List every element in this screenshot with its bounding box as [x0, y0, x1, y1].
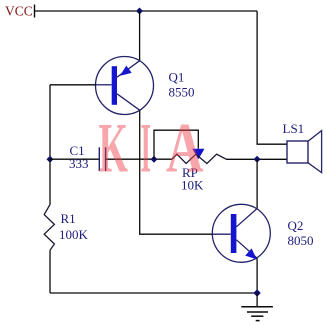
svg-text:A: A	[166, 110, 204, 188]
junction top	[136, 8, 143, 15]
svg-text:100K: 100K	[59, 227, 89, 242]
junction left	[47, 156, 54, 163]
speaker LS1	[287, 131, 322, 173]
wire top rail	[35, 10, 258, 12]
wire Q1 base	[50, 84, 96, 86]
ground	[241, 293, 273, 321]
svg-text:Q1: Q1	[169, 70, 185, 85]
svg-text:333: 333	[69, 156, 89, 171]
svg-text:Q2: Q2	[288, 218, 304, 233]
resistor R1	[44, 205, 54, 251]
wire R1 bottom	[49, 250, 51, 293]
svg-text:LS1: LS1	[283, 121, 305, 136]
power port VCC pin bar	[34, 5, 36, 18]
potentiometer RP wiper arrow	[192, 149, 204, 159]
capacitor C1	[99, 147, 105, 171]
wire C1 to mid junction	[106, 158, 172, 160]
watermark KIA	[99, 110, 204, 188]
wire right junction to Q2 collector	[256, 159, 258, 208]
wire Q2 emitter down	[256, 258, 258, 293]
svg-text:8550: 8550	[169, 85, 195, 100]
svg-text:I: I	[141, 110, 152, 188]
wire R1 top	[49, 159, 51, 204]
transistor Q1	[96, 57, 154, 115]
wire RP to right junction	[226, 158, 287, 160]
junction ground	[253, 289, 260, 296]
junction mid	[151, 156, 158, 163]
wire bottom rail	[50, 292, 257, 294]
svg-text:VCC: VCC	[5, 3, 33, 18]
wire top rail to speaker upper terminal	[257, 11, 287, 144]
svg-text:K: K	[99, 110, 129, 188]
potentiometer RP body	[172, 154, 226, 163]
wire left rail upper	[49, 85, 51, 159]
wire wiper feedback	[154, 130, 198, 159]
transistor Q2	[212, 204, 270, 262]
wire Q1 collector to Q2 base	[140, 110, 213, 234]
wire VCC to Q1 emitter	[139, 11, 141, 61]
svg-text:8050: 8050	[288, 233, 314, 248]
svg-text:R1: R1	[61, 211, 76, 226]
wire junction to C1	[50, 158, 99, 160]
junction right	[254, 156, 261, 163]
